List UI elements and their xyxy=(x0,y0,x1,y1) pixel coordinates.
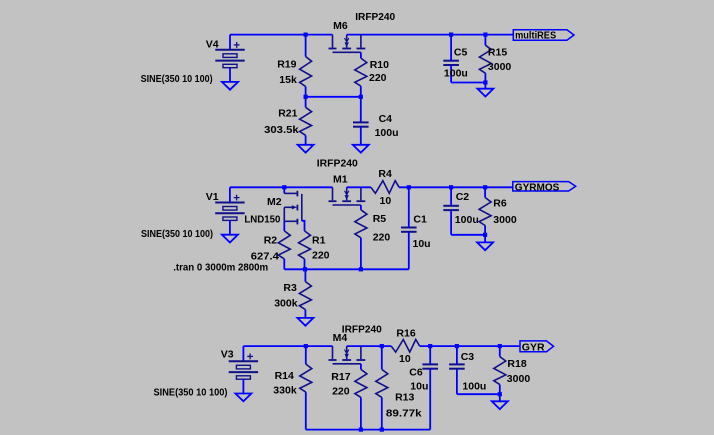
svg-text:M6: M6 xyxy=(333,20,348,32)
ground xyxy=(298,145,314,153)
wire xyxy=(484,73,486,82)
wire xyxy=(499,346,501,357)
svg-text:10u: 10u xyxy=(413,238,431,250)
wire xyxy=(347,34,514,36)
wire xyxy=(304,269,306,281)
svg-text:multiRES: multiRES xyxy=(515,29,556,41)
svg-text:IRFP240: IRFP240 xyxy=(355,11,395,23)
svg-text:R16: R16 xyxy=(396,328,415,340)
wire xyxy=(408,232,410,269)
wire xyxy=(306,429,430,431)
wire xyxy=(381,346,383,369)
svg-text:IRFP240: IRFP240 xyxy=(317,157,358,169)
wire xyxy=(499,385,501,395)
wire xyxy=(230,34,333,36)
capacitor C1 xyxy=(401,227,417,229)
wire xyxy=(360,127,362,145)
wire xyxy=(347,345,392,347)
svg-text:10: 10 xyxy=(380,195,392,207)
wire xyxy=(360,397,362,429)
resistor R15 xyxy=(479,45,491,73)
svg-text:M2: M2 xyxy=(267,196,282,208)
capacitor C5 xyxy=(443,60,459,62)
wire xyxy=(450,65,452,83)
capacitor C3 xyxy=(449,363,465,365)
junction xyxy=(449,33,453,37)
resistor R3 xyxy=(299,282,311,310)
net label GYRMOS xyxy=(513,182,576,191)
ground xyxy=(297,318,313,326)
wire xyxy=(484,35,486,46)
wire xyxy=(450,210,452,235)
wire xyxy=(429,369,431,430)
svg-text:3000: 3000 xyxy=(507,373,531,385)
svg-text:303.5k: 303.5k xyxy=(264,124,299,136)
svg-text:R19: R19 xyxy=(277,58,296,70)
resistor R10 xyxy=(355,58,367,86)
wire xyxy=(230,186,333,188)
svg-text:627.4: 627.4 xyxy=(251,251,279,263)
svg-text:R4: R4 xyxy=(378,168,392,180)
wire xyxy=(456,369,458,395)
svg-text:C1: C1 xyxy=(413,213,427,225)
wire xyxy=(305,135,307,145)
svg-text:C5: C5 xyxy=(454,46,468,58)
svg-text:100u: 100u xyxy=(462,380,486,392)
resistor R18 xyxy=(494,357,506,385)
wire xyxy=(304,310,306,318)
resistor R2 xyxy=(278,231,290,259)
wire xyxy=(283,221,285,231)
wire xyxy=(304,259,306,269)
resistor R13 xyxy=(376,369,388,397)
wire xyxy=(360,52,362,58)
svg-text:100u: 100u xyxy=(444,68,468,80)
ground xyxy=(235,394,251,402)
svg-text:.tran 0 3000m 2800m: .tran 0 3000m 2800m xyxy=(173,262,268,274)
svg-text:R18: R18 xyxy=(507,358,526,370)
wire xyxy=(484,235,486,243)
wire xyxy=(243,345,332,347)
wire xyxy=(484,83,486,89)
svg-text:R3: R3 xyxy=(283,282,297,294)
svg-text:C3: C3 xyxy=(461,351,475,363)
junction xyxy=(304,95,308,99)
resistor R4 xyxy=(371,181,399,194)
svg-text:IRFP240: IRFP240 xyxy=(342,324,382,336)
wire xyxy=(457,393,500,395)
svg-text:R14: R14 xyxy=(275,370,294,382)
svg-text:GYRMOS: GYRMOS xyxy=(515,182,560,194)
svg-text:V3: V3 xyxy=(221,349,234,361)
svg-text:LND150: LND150 xyxy=(244,214,280,226)
ground xyxy=(477,242,493,250)
svg-text:C6: C6 xyxy=(409,366,423,378)
svg-text:10: 10 xyxy=(399,353,411,365)
resistor R17 xyxy=(355,369,367,397)
wire xyxy=(450,187,452,206)
wire xyxy=(399,186,513,188)
svg-text:330k: 330k xyxy=(273,385,297,397)
mosfet M1 xyxy=(332,187,334,200)
ground xyxy=(222,82,238,90)
svg-text:220: 220 xyxy=(373,231,391,243)
ground xyxy=(492,401,508,409)
svg-text:R5: R5 xyxy=(373,213,387,225)
wire xyxy=(305,35,307,57)
wire xyxy=(306,96,361,98)
capacitor C6 xyxy=(422,363,438,365)
ground xyxy=(353,145,369,153)
svg-text:R13: R13 xyxy=(395,392,414,404)
wire xyxy=(499,394,501,401)
wire xyxy=(360,364,362,370)
wire xyxy=(360,238,362,269)
wire xyxy=(283,259,285,269)
svg-text:3000: 3000 xyxy=(493,214,517,226)
wire xyxy=(420,345,520,347)
voltage source V1 xyxy=(229,187,231,202)
svg-text:10u: 10u xyxy=(410,380,428,392)
wire xyxy=(381,397,383,429)
svg-text:220: 220 xyxy=(312,250,330,262)
junction xyxy=(428,344,432,348)
mosfet M4 xyxy=(332,346,334,359)
svg-text:C4: C4 xyxy=(379,113,393,125)
resistor R1 xyxy=(299,231,311,259)
wire xyxy=(305,87,307,108)
svg-text:SINE(350 10 100): SINE(350 10 100) xyxy=(141,73,213,85)
resistor R16 xyxy=(391,340,420,353)
wire xyxy=(484,226,486,235)
voltage source V4 xyxy=(229,35,231,50)
svg-text:3000: 3000 xyxy=(488,61,512,73)
wire xyxy=(450,35,452,61)
svg-text:R1: R1 xyxy=(312,235,326,247)
voltage source V3 xyxy=(242,346,244,361)
wire xyxy=(451,234,485,236)
wire xyxy=(305,392,307,430)
wire xyxy=(305,346,307,364)
svg-text:220: 220 xyxy=(332,385,350,397)
wire xyxy=(284,268,409,270)
junction xyxy=(304,344,308,348)
svg-text:SINE(350 10 100): SINE(350 10 100) xyxy=(154,386,228,398)
net label GYR xyxy=(520,341,554,352)
resistor R21 xyxy=(300,107,312,135)
capacitor C4 xyxy=(353,121,369,123)
mosfet M2 xyxy=(283,187,285,193)
svg-text:R15: R15 xyxy=(488,46,507,58)
svg-text:100u: 100u xyxy=(455,214,479,226)
junction xyxy=(282,185,286,189)
wire xyxy=(451,82,485,84)
svg-text:220: 220 xyxy=(369,72,387,84)
svg-text:R2: R2 xyxy=(264,235,278,247)
svg-text:100u: 100u xyxy=(375,127,399,139)
net label multiRES xyxy=(513,30,574,40)
wire xyxy=(429,346,431,364)
wire xyxy=(408,187,410,227)
wire xyxy=(360,86,362,122)
svg-text:R6: R6 xyxy=(493,198,507,210)
resistor R19 xyxy=(300,57,312,87)
svg-text:R21: R21 xyxy=(278,108,297,120)
ground xyxy=(477,89,493,97)
mosfet M6 xyxy=(332,35,334,48)
junction xyxy=(407,185,411,189)
svg-text:V4: V4 xyxy=(206,38,219,50)
svg-text:V1: V1 xyxy=(206,191,219,203)
svg-text:R10: R10 xyxy=(370,59,389,71)
svg-text:GYR: GYR xyxy=(522,341,545,353)
capacitor C2 xyxy=(443,205,459,207)
svg-text:300k: 300k xyxy=(274,298,298,310)
svg-text:SINE(350 10 100): SINE(350 10 100) xyxy=(141,228,213,240)
wire xyxy=(484,187,486,197)
junction xyxy=(303,267,307,271)
wire xyxy=(360,205,362,210)
resistor R5 xyxy=(355,210,367,238)
svg-text:C2: C2 xyxy=(456,191,470,203)
svg-text:M1: M1 xyxy=(333,173,348,185)
resistor R14 xyxy=(300,364,312,392)
wire xyxy=(456,346,458,364)
svg-text:R17: R17 xyxy=(331,371,350,383)
wire xyxy=(347,186,371,188)
ground xyxy=(222,235,238,243)
resistor R6 xyxy=(479,198,491,226)
svg-text:89.77k: 89.77k xyxy=(386,408,422,420)
svg-text:15k: 15k xyxy=(279,74,297,86)
